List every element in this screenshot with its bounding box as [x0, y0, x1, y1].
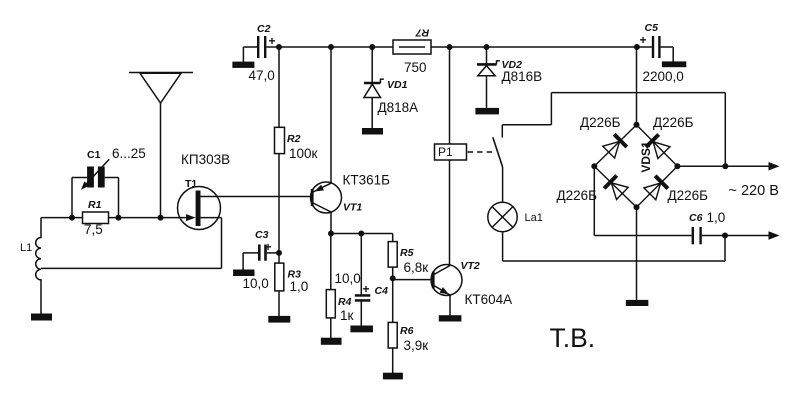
wire: VT1 emitter to rail: [330, 47, 332, 183]
zener diode VD2 triangle: [478, 66, 495, 76]
wire: bridge bottom to ground: [636, 207, 638, 300]
wire: collector line to R5: [331, 233, 393, 235]
ground (at C5): [662, 61, 686, 67]
capacitor C3: [258, 245, 261, 261]
node: VT2 base junction: [390, 275, 396, 281]
svg-text:C4: C4: [375, 285, 389, 297]
resistor R5: [388, 242, 397, 268]
transistor VT2 collector: [433, 266, 450, 276]
ground (at C2): [232, 62, 254, 68]
capacitor C1 (variable): [87, 167, 94, 188]
svg-text:+: +: [363, 282, 370, 296]
wire: R2 branch (rail to C3 node): [278, 47, 280, 253]
transistor VT2 base bar: [432, 272, 435, 289]
wire: relay coil from rail: [449, 47, 451, 144]
diode VD4 (Д226Б top-right): [646, 135, 659, 148]
wire: VT1 collector down: [330, 212, 332, 234]
transistor T1 gate arrow: [186, 214, 196, 221]
transistor VT1 body: [311, 182, 342, 213]
svg-text:+: +: [269, 34, 276, 48]
node: rail at VT1 emitter: [328, 44, 334, 50]
node: rail at relay P1: [447, 44, 453, 50]
svg-text:КП303В: КП303В: [181, 152, 230, 167]
node: bridge top: [634, 122, 640, 128]
wire: C3 right lead: [267, 252, 279, 254]
node: rail at VD1: [369, 44, 375, 50]
wire: switch to lamp: [502, 167, 504, 202]
wire: output line 2 (left of C6): [594, 235, 691, 237]
antenna WA1 top bar: [129, 72, 193, 74]
wire: output line 2 (right of C6): [702, 235, 769, 237]
lamp La1 cross: [492, 207, 513, 228]
node: C1 left tap: [71, 178, 73, 218]
wire: VD1 to ground: [371, 98, 373, 129]
svg-text:R7: R7: [415, 27, 430, 39]
wire: bridge top feed: [636, 47, 638, 125]
node: bridge right: [674, 163, 680, 169]
ground (under L1): [31, 314, 52, 321]
diode VD5 (Д226Б bottom-left): [604, 176, 617, 189]
zener diode VD2 cathode bar: [477, 63, 497, 66]
transistor T1 drain lead: [201, 196, 312, 198]
wire: base line to VT2: [393, 279, 432, 281]
resistor R2: [275, 127, 285, 153]
node: antenna junction: [158, 215, 164, 221]
wire: R4 branch: [330, 234, 332, 290]
svg-text:VD1: VD1: [387, 79, 408, 91]
svg-text:1,0: 1,0: [707, 210, 726, 225]
ground (under R6): [383, 373, 403, 380]
resistor R1: [83, 212, 109, 224]
svg-text:1,0: 1,0: [290, 279, 309, 294]
svg-text:VT2: VT2: [461, 260, 480, 272]
relay switch lever: [493, 137, 503, 167]
arrow output 2: [769, 231, 780, 240]
arrow output 1: [769, 162, 780, 171]
svg-text:La1: La1: [525, 212, 543, 224]
svg-text:R1: R1: [88, 199, 102, 211]
svg-text:Д816В: Д816В: [502, 69, 543, 84]
svg-text:Д226Б: Д226Б: [580, 115, 621, 130]
svg-text:~ 220 В: ~ 220 В: [729, 183, 779, 199]
svg-text:750: 750: [404, 60, 427, 75]
resistor R3: [275, 263, 284, 291]
svg-text:10,0: 10,0: [335, 271, 361, 286]
node: C4 junction: [358, 231, 364, 237]
wire: C2 left lead to ground: [243, 46, 257, 48]
wire: bridge arm top-left: [594, 125, 636, 167]
ground (under VD2): [475, 108, 499, 115]
wire: C3 left lead to ground: [243, 252, 258, 254]
svg-text:Д226Б: Д226Б: [653, 115, 694, 130]
svg-text:Д226Б: Д226Б: [557, 188, 598, 203]
svg-text:10,0: 10,0: [243, 276, 269, 291]
capacitor C5: [652, 36, 654, 58]
ground (under C4): [350, 326, 373, 333]
capacitor C4: [355, 294, 371, 297]
transistor T1 body: [178, 187, 221, 230]
wire: bridge left drop: [593, 166, 595, 235]
wire: output line 1: [677, 165, 769, 167]
node: VT1 collector junction: [328, 231, 334, 237]
svg-text:Д226Б: Д226Б: [668, 188, 709, 203]
svg-text:C5: C5: [645, 22, 659, 34]
ground (under VD1): [362, 128, 383, 135]
wire: R5-R6 branch: [392, 234, 394, 374]
svg-text:КТ604А: КТ604А: [465, 292, 513, 307]
wire: relay to VT2 collector: [449, 160, 451, 265]
svg-text:2200,0: 2200,0: [643, 69, 684, 84]
transistor VT1 emitter: [312, 183, 331, 192]
wire: VD2 to ground: [486, 76, 488, 108]
svg-text:47,0: 47,0: [249, 68, 275, 83]
node: output 2 junction: [722, 233, 728, 239]
transistor T1 source lead: [201, 217, 222, 219]
transistor VT1 emitter arrow: [315, 185, 325, 192]
wire: tank top line (L1 to T1 gate): [41, 217, 83, 219]
ground (under bridge): [626, 300, 649, 306]
svg-text:C1: C1: [87, 149, 101, 161]
wire: VD2 lead from rail: [486, 47, 488, 64]
svg-text:T1: T1: [185, 178, 197, 190]
ground (under R3): [268, 316, 290, 323]
svg-text:R6: R6: [400, 325, 414, 337]
node: output 1 junction: [722, 163, 728, 169]
transistor VT2 body: [431, 265, 462, 296]
svg-text:C6: C6: [689, 212, 703, 224]
ground (under VT2): [439, 315, 462, 321]
inductor L1: [36, 218, 41, 314]
node: rail at C5/bridge: [634, 44, 640, 50]
wire: bridge arm bottom-left: [594, 166, 636, 207]
relay contact dashes: [468, 151, 496, 153]
diode VD3 (Д226Б top-left): [614, 134, 627, 147]
wire: C5 right lead to ground: [661, 46, 674, 48]
svg-text:VDS1: VDS1: [639, 141, 653, 173]
wire: VD1 lead from rail: [371, 47, 373, 83]
svg-text:+: +: [265, 240, 272, 254]
capacitor C6: [692, 227, 694, 244]
svg-text:Д818А: Д818А: [378, 100, 419, 115]
node: T1 drain - C3/R3 junction: [276, 250, 282, 256]
svg-text:L1: L1: [20, 242, 32, 254]
ground (at C3): [233, 270, 254, 277]
zener diode VD1 triangle: [364, 84, 381, 97]
node: C1 right tap: [105, 177, 119, 179]
wire: bridge arm top-right: [637, 125, 678, 167]
svg-text:+: +: [640, 33, 647, 47]
transistor VT1 collector: [312, 203, 331, 213]
wire: bridge arm bottom-right: [637, 166, 678, 207]
relay coil P1: [435, 144, 467, 160]
wire: R3 branch: [278, 253, 280, 316]
svg-text:6,8к: 6,8к: [404, 260, 429, 275]
ground (under R4): [321, 338, 342, 345]
antenna WA1 triangle: [140, 73, 181, 103]
svg-text:Т.В.: Т.В.: [550, 323, 596, 353]
wire: lamp bottom run: [502, 232, 504, 261]
transistor T1 channel bar: [196, 191, 201, 227]
transistor VT2 emitter: [433, 285, 450, 295]
node: bridge bottom: [634, 204, 640, 210]
diode VD6 (Д226Б bottom-right): [655, 176, 668, 189]
transistor VT1 base bar: [311, 189, 314, 206]
svg-text:3,9к: 3,9к: [404, 338, 429, 353]
svg-text:1к: 1к: [340, 308, 354, 323]
svg-text:R2: R2: [287, 133, 301, 145]
resistor R7: [393, 40, 431, 54]
svg-text:R5: R5: [400, 247, 414, 259]
wire: top link (switch to output): [551, 92, 725, 94]
zener diode VD1 cathode bar: [364, 82, 381, 85]
svg-text:КТ361Б: КТ361Б: [343, 173, 391, 188]
resistor R4: [326, 290, 335, 318]
resistor R6: [388, 322, 397, 348]
wire: positive rail (C2 to C5): [267, 46, 652, 48]
capacitor C2: [257, 36, 259, 58]
svg-text:VT1: VT1: [343, 202, 362, 214]
capacitor C1 arrow: [84, 159, 109, 186]
node: bridge left: [591, 163, 597, 169]
transistor VT2 emitter arrow: [440, 287, 449, 294]
wire: antenna lead down: [160, 103, 162, 218]
svg-text:7,5: 7,5: [84, 222, 103, 237]
wire: output drop: [724, 93, 726, 167]
lamp La1 body: [488, 202, 517, 231]
svg-text:100к: 100к: [289, 146, 318, 161]
svg-text:R4: R4: [338, 296, 352, 308]
svg-text:6...25: 6...25: [112, 146, 146, 161]
node: rail at VD2: [484, 44, 490, 50]
node: rail at R2: [276, 44, 282, 50]
wire: riser to top link: [550, 93, 552, 125]
wire: C4 branch: [360, 234, 362, 296]
wire: switch top feed: [502, 124, 551, 126]
wire: L1 tap to T1 source: [41, 267, 222, 269]
wire: VT2 emitter to ground: [449, 295, 451, 316]
svg-text:P1: P1: [438, 145, 453, 159]
